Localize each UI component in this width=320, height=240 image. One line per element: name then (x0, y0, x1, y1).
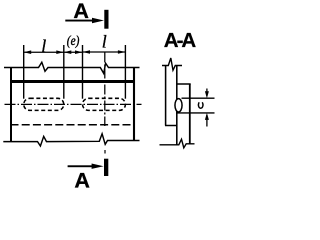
svg-text:A: A (74, 169, 90, 190)
svg-text:A: A (73, 0, 89, 23)
svg-text:l: l (102, 32, 107, 52)
svg-text:A-A: A-A (164, 29, 197, 52)
svg-text:(e): (e) (67, 33, 80, 48)
svg-text:l: l (41, 36, 46, 56)
